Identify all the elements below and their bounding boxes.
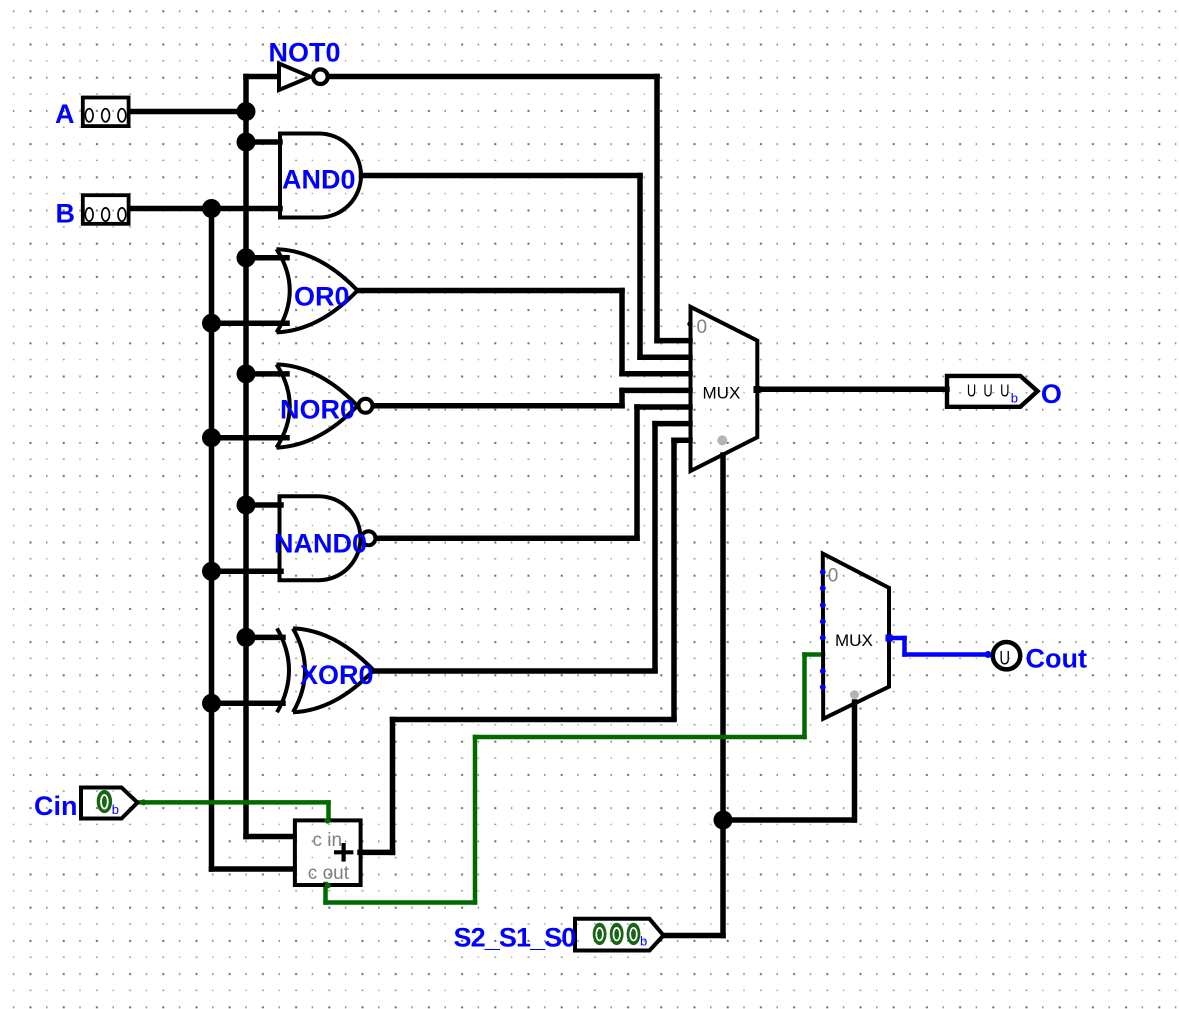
svg-text:AND0: AND0 bbox=[282, 165, 356, 195]
MUX1 output port bbox=[754, 386, 761, 393]
wire select branch horizontal bbox=[723, 817, 854, 823]
pin B value 0 0 0 bbox=[85, 208, 93, 221]
junction A-bus NAND top bbox=[237, 496, 256, 515]
NOR0 bubble bbox=[359, 399, 373, 413]
wire NAND0 output bbox=[376, 535, 637, 541]
wire Cin green vertical to adder bbox=[326, 802, 331, 817]
wire A bus vertical bbox=[243, 77, 249, 837]
pin Cout circle bbox=[993, 642, 1020, 669]
junction A-bus at A pin bbox=[237, 102, 256, 121]
junction A-bus OR top bbox=[237, 248, 256, 267]
pin A value 0 0 0 bbox=[85, 109, 93, 122]
adder c out port dot bbox=[325, 883, 331, 889]
wire MUX in3 bbox=[622, 371, 690, 377]
MUX2 output port bbox=[886, 635, 893, 642]
pin A box bbox=[83, 98, 129, 127]
wire MUX2 output blue bbox=[889, 636, 905, 641]
wire NAND0 output vertical bbox=[634, 407, 640, 538]
wire NOR0 bottom input bbox=[212, 435, 288, 441]
junction A-bus AND top bbox=[237, 133, 256, 152]
pin Cin value 0 bbox=[97, 790, 112, 813]
wire XOR0 top input bbox=[246, 635, 283, 641]
svg-text:c in: c in bbox=[313, 830, 343, 851]
wire OR0 output bbox=[358, 288, 623, 294]
wire NOR0 top input bbox=[246, 371, 287, 377]
svg-text:O: O bbox=[1041, 379, 1062, 409]
wire adder sum output bbox=[360, 850, 393, 856]
output pin O bbox=[947, 376, 1038, 407]
MUX2 unconnected input dots bbox=[820, 569, 826, 575]
wire NOT0 output bbox=[328, 74, 657, 80]
MUX1 body bbox=[691, 307, 758, 471]
svg-text:XOR0: XOR0 bbox=[300, 660, 374, 690]
wire c out green vertical up bbox=[473, 737, 478, 903]
adder c in port dot bbox=[325, 818, 331, 824]
wire XOR0 output vertical bbox=[652, 424, 658, 671]
svg-text:U: U bbox=[999, 648, 1010, 669]
multiplexer MUX1 bbox=[687, 307, 760, 471]
wire select vertical bbox=[720, 455, 726, 936]
wire select branch vertical to MUX2 bbox=[852, 702, 858, 820]
wire MUX in4 bbox=[622, 388, 690, 394]
svg-text:NOR0: NOR0 bbox=[280, 395, 355, 425]
junction select branch bbox=[714, 811, 733, 830]
junction B-bus OR bottom bbox=[202, 314, 221, 333]
svg-text:A: A bbox=[55, 99, 75, 129]
svg-text:b: b bbox=[640, 934, 647, 949]
and gate AND0 bbox=[280, 134, 361, 218]
svg-text:U: U bbox=[1000, 382, 1009, 402]
wire A pin to A bus bbox=[130, 109, 246, 115]
junction B-bus XOR bottom bbox=[202, 694, 221, 713]
svg-text:NAND0: NAND0 bbox=[274, 529, 367, 559]
input pin Cin bbox=[81, 788, 147, 819]
wire MUX in1 bbox=[657, 338, 690, 344]
wire c out green horizontal bbox=[326, 900, 476, 905]
wire c out green vertical up 2 bbox=[802, 655, 807, 738]
pin S2_S1_S0 value 000 bbox=[593, 923, 607, 945]
wire OR0 top input bbox=[246, 255, 287, 261]
wire MUX in7 bbox=[674, 437, 690, 443]
svg-text:0: 0 bbox=[828, 566, 839, 587]
wire OR0 output vertical bbox=[619, 291, 625, 374]
NOT0 bubble bbox=[313, 69, 328, 84]
junction A-bus XOR top bbox=[237, 628, 256, 647]
junction A-bus NOR top bbox=[237, 364, 256, 383]
wire AND0 top input bbox=[246, 139, 280, 145]
wire adder input 1 bbox=[246, 834, 294, 840]
wire NAND0 bottom input bbox=[212, 569, 282, 575]
adder body bbox=[295, 820, 361, 885]
MUX1 enable dot bbox=[717, 435, 727, 445]
pin Cin shape bbox=[81, 788, 138, 819]
wire B bus vertical bbox=[209, 209, 215, 870]
pin Cin port dot bbox=[141, 799, 147, 805]
wire XOR0 bottom input bbox=[212, 701, 284, 707]
wire NAND0 top input bbox=[246, 502, 281, 508]
pin O shape bbox=[947, 376, 1038, 407]
wire c out green vertical bbox=[323, 884, 328, 903]
svg-text:U: U bbox=[967, 382, 976, 402]
xor gate XOR0 bbox=[277, 628, 374, 712]
svg-text:Cout: Cout bbox=[1026, 643, 1087, 673]
wire adder sum vertical 2 bbox=[671, 440, 677, 718]
nor gate NOR0 bbox=[277, 364, 373, 447]
junction B-bus NAND bottom bbox=[202, 562, 221, 581]
junction B-bus NOR bottom bbox=[202, 428, 221, 447]
wire adder sum horizontal bbox=[393, 717, 675, 723]
wire MUX in6 bbox=[655, 421, 690, 427]
wire XOR0 output bbox=[374, 668, 655, 674]
nand gate NAND0 bbox=[280, 496, 376, 580]
wire B pin to AND0 bottom input bbox=[130, 206, 280, 212]
wire Cin green horizontal bbox=[137, 800, 329, 805]
svg-text:Cin: Cin bbox=[34, 791, 78, 821]
wire c out green horizontal 2 bbox=[475, 735, 805, 740]
svg-text:b: b bbox=[112, 802, 119, 817]
NAND0 bubble bbox=[362, 531, 376, 545]
wire adder input 2 bbox=[212, 866, 295, 872]
port dot Cout input bbox=[985, 651, 992, 658]
svg-text:S2_S1_S0: S2_S1_S0 bbox=[454, 923, 576, 953]
MUX1 input 0 unconnected dot bbox=[687, 321, 692, 326]
svg-text:B: B bbox=[56, 198, 76, 228]
input pin A bbox=[83, 98, 129, 127]
wire NOR0 output vertical bbox=[619, 390, 625, 405]
adder U1 bbox=[295, 818, 361, 889]
not gate NOT0 bbox=[279, 64, 328, 91]
wire MUX output to O pin bbox=[757, 387, 947, 393]
wire OR0 bottom input bbox=[212, 320, 288, 326]
adder plus symbol bbox=[334, 850, 353, 854]
wire S2_S1_S0 pin to select bbox=[664, 933, 723, 939]
svg-text:0: 0 bbox=[697, 317, 708, 338]
input pin B bbox=[83, 195, 129, 224]
wire MUX2 output blue vertical bbox=[902, 638, 907, 655]
wire AND0 output bbox=[362, 173, 641, 179]
NOT0 triangle bbox=[279, 64, 311, 91]
wire MUX in2 bbox=[640, 354, 690, 360]
wire AND0 output vertical bbox=[637, 176, 643, 358]
MUX2 enable dot bbox=[850, 690, 859, 699]
MUX2 body bbox=[823, 554, 889, 719]
svg-text:c out: c out bbox=[308, 863, 350, 884]
wire MUX in5 bbox=[637, 404, 690, 410]
wire blue to Cout bbox=[905, 652, 989, 657]
wire adder sum vertical bbox=[390, 720, 396, 853]
wire NOT0 input bbox=[246, 74, 277, 80]
multiplexer MUX2 bbox=[820, 554, 893, 719]
pin B box bbox=[83, 195, 129, 224]
input pin S2_S1_S0 bbox=[575, 919, 664, 951]
svg-text:U: U bbox=[983, 382, 992, 402]
pin S2_S1_S0 shape bbox=[575, 919, 664, 951]
svg-text:OR0: OR0 bbox=[294, 282, 350, 312]
svg-text:MUX: MUX bbox=[703, 384, 741, 403]
output pin Cout bbox=[993, 642, 1020, 669]
svg-text:NOT0: NOT0 bbox=[269, 38, 341, 68]
or gate OR0 bbox=[277, 249, 358, 332]
svg-text:MUX: MUX bbox=[835, 631, 873, 650]
wire c out green to MUX2 input bbox=[805, 652, 824, 657]
svg-text:b: b bbox=[1011, 391, 1018, 406]
wire NOT0 output vertical bbox=[654, 77, 660, 341]
junction B-bus at B pin bbox=[202, 199, 221, 218]
wire NOR0 output bbox=[373, 403, 622, 409]
